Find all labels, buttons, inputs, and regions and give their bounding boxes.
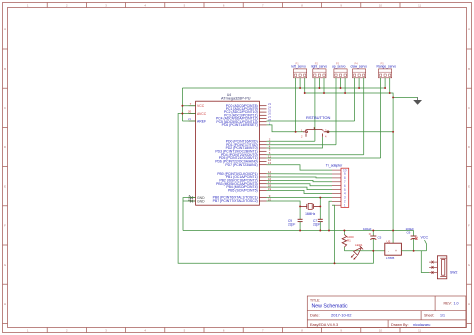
svg-text:20: 20 — [188, 110, 192, 114]
wire PB1 to Tr pin8 — [267, 176, 333, 179]
wire P3 signal pin — [335, 78, 337, 145]
wire to switch SW2 — [421, 251, 429, 273]
wire PC6 RESET to button — [267, 125, 304, 132]
svg-text:5: 5 — [184, 329, 186, 333]
svg-text:-: - — [388, 249, 389, 253]
connector P2 right_servo — [311, 61, 327, 77]
svg-text:2: 2 — [66, 3, 68, 7]
svg-text:C5: C5 — [378, 235, 382, 239]
svg-text:nicolazaru: nicolazaru — [413, 323, 430, 327]
title block — [307, 296, 466, 328]
svg-text:ATmega328P-PU: ATmega328P-PU — [221, 97, 251, 101]
capacitor C9 — [288, 206, 303, 230]
svg-text:L7805: L7805 — [386, 256, 395, 260]
wire PD1 to connector P3 — [267, 144, 337, 146]
svg-text:VCC: VCC — [197, 104, 205, 108]
wire PB4 to Tr pin5 — [267, 187, 333, 190]
svg-text:Sheet:: Sheet: — [424, 314, 434, 318]
ground symbol — [414, 97, 421, 104]
svg-text:9: 9 — [340, 329, 342, 333]
svg-text:A: A — [468, 27, 470, 31]
pushbutton RSTBUTTON — [301, 115, 330, 139]
wire rail A (VCC) — [182, 87, 385, 89]
op IC U4 ATmega328P-PU — [196, 93, 260, 205]
svg-text:B: B — [468, 67, 470, 71]
svg-text:RSTBUTTON: RSTBUTTON — [306, 115, 330, 120]
wire PB7 XTAL2 to crystal — [267, 201, 301, 206]
svg-text:PB7 (PCINT7/XTAL2/TOSC2): PB7 (PCINT7/XTAL2/TOSC2) — [213, 199, 258, 203]
connector P1 left_servo — [292, 61, 307, 77]
connector Tr_adapter — [326, 163, 349, 207]
wire P5 signal pin — [380, 78, 382, 158]
svg-text:4: 4 — [144, 3, 146, 7]
wire Tr pin2 to inner rail — [329, 201, 332, 230]
wire GND pins to inner rail — [183, 198, 196, 231]
wire AVCC branch to outer rail — [178, 114, 373, 264]
svg-text:3: 3 — [105, 3, 107, 7]
wire VCC rail A left vertical — [182, 88, 195, 121]
svg-text:PB5 (SCK/PCINT5): PB5 (SCK/PCINT5) — [228, 189, 258, 193]
wire PB6 XTAL1 to Tr pin3 — [267, 196, 333, 198]
wire Tr pin1 to outer rail — [332, 205, 335, 263]
U4 right pin names — [213, 104, 258, 203]
wire regulator output — [401, 250, 426, 252]
wire PD2 to button lower pin — [267, 137, 323, 148]
wire rail B (GND top) — [305, 93, 393, 97]
svg-text:New Schematic: New Schematic — [312, 303, 348, 309]
wire P1 gnd pin — [304, 78, 306, 93]
svg-text:7: 7 — [262, 3, 264, 7]
svg-text:EasyEDA V4.9.3: EasyEDA V4.9.3 — [310, 323, 338, 327]
wire P2 gnd pin — [323, 78, 325, 93]
net flag VCC — [421, 235, 429, 250]
GND pin cross marks — [190, 196, 193, 202]
svg-text:right_servo: right_servo — [311, 64, 327, 68]
svg-text:D: D — [4, 145, 6, 149]
svg-text:16MHz: 16MHz — [305, 212, 316, 216]
U4 right pin stubs — [259, 106, 266, 201]
svg-text:3: 3 — [105, 329, 107, 333]
svg-text:2: 2 — [66, 329, 68, 333]
svg-text:D: D — [468, 145, 470, 149]
svg-text:E: E — [468, 184, 470, 188]
connector P3 up_servo — [332, 61, 347, 77]
wire P5 power pin — [384, 78, 386, 88]
svg-text:E: E — [4, 184, 6, 188]
svg-text:H: H — [4, 302, 6, 306]
svg-text:claw_servo: claw_servo — [351, 64, 368, 68]
svg-text:1: 1 — [344, 203, 346, 207]
svg-text:11: 11 — [418, 329, 421, 333]
svg-text:7: 7 — [262, 329, 264, 333]
svg-text:PD7 (PCINT23/AIN1): PD7 (PCINT23/AIN1) — [225, 163, 257, 167]
svg-text:REV:: REV: — [444, 301, 452, 305]
wire P5 gnd pin — [389, 78, 391, 93]
svg-text:SW2: SW2 — [450, 270, 457, 274]
wire button to GND vertical — [327, 131, 393, 133]
svg-text:C: C — [468, 106, 470, 110]
svg-text:4: 4 — [325, 135, 327, 139]
regulator U5 L7805 — [385, 239, 402, 260]
switch SW2 — [429, 256, 457, 279]
wire P4 signal pin — [354, 78, 356, 121]
capacitor C7 — [313, 206, 323, 230]
crystal Y1 16MHz — [300, 203, 320, 215]
svg-text:H: H — [468, 302, 470, 306]
svg-text:TITLE:: TITLE: — [310, 299, 320, 303]
svg-text:left_servo: left_servo — [292, 64, 306, 68]
wire P2 power pin — [318, 78, 320, 88]
svg-text:9: 9 — [340, 3, 342, 7]
connector P5 Range_servo — [377, 61, 397, 77]
svg-text:Range_servo: Range_servo — [377, 64, 397, 68]
LED LED1 — [344, 243, 384, 259]
wire P4 power pin — [358, 78, 360, 88]
svg-text:22pF: 22pF — [288, 223, 295, 227]
wire PD5 to connector P5 — [267, 157, 381, 159]
wire PB0 to Tr pin9 — [267, 173, 333, 175]
svg-text:1.0: 1.0 — [454, 301, 459, 305]
svg-text:8: 8 — [301, 3, 303, 7]
svg-text:GND: GND — [197, 199, 205, 203]
wire PC4 to connector P4 — [267, 120, 355, 122]
wire PD4 to connector P4 pin3 — [267, 154, 364, 156]
wire P4 third pin to PD4 — [363, 78, 365, 155]
svg-text:AREF: AREF — [197, 119, 206, 123]
wire P1 power pin — [299, 78, 301, 88]
wire XTAL1 branch to crystal — [319, 198, 321, 207]
wire PB3 to Tr pin6 — [267, 184, 333, 186]
svg-text:LED1: LED1 — [355, 243, 363, 247]
svg-text:R1: R1 — [347, 239, 351, 243]
svg-text:100uF: 100uF — [363, 227, 372, 231]
svg-text:PC6 (PCINT14/RESET): PC6 (PCINT14/RESET) — [222, 123, 258, 127]
wire P3 gnd pin — [344, 78, 346, 93]
svg-text:7: 7 — [190, 102, 192, 106]
svg-text:Date:: Date: — [310, 313, 320, 318]
resistor R1 1000 — [342, 231, 354, 251]
svg-text:5: 5 — [184, 3, 186, 7]
capacitor C6 100uF — [406, 227, 418, 251]
wire GND vertical to regulator — [392, 97, 394, 243]
svg-text:up_servo: up_servo — [332, 64, 346, 68]
wire P1 signal pin — [295, 78, 297, 132]
svg-text:U5: U5 — [387, 239, 391, 243]
U4 left pins VCC AVCC AREF GND — [189, 106, 196, 201]
capacitor C5 100uF — [363, 227, 382, 251]
svg-text:6: 6 — [223, 3, 225, 7]
svg-text:1/1: 1/1 — [440, 314, 445, 318]
svg-text:2017-10-02: 2017-10-02 — [331, 313, 352, 318]
svg-text:10: 10 — [379, 329, 383, 333]
svg-text:A: A — [4, 27, 6, 31]
svg-text:22pF: 22pF — [313, 223, 320, 227]
svg-text:Drawn By:: Drawn By: — [391, 323, 409, 327]
svg-text:10: 10 — [379, 3, 383, 7]
svg-text:4: 4 — [144, 329, 146, 333]
svg-text:21: 21 — [188, 117, 192, 121]
svg-text:C: C — [4, 106, 6, 110]
wire PB5 to Tr pin4 — [267, 190, 333, 193]
wire rail C to ground — [393, 96, 418, 98]
svg-text:Tr_adapter: Tr_adapter — [326, 163, 343, 167]
wire PD0 to connector P2 — [267, 140, 315, 142]
wire P3 power pin — [340, 78, 342, 88]
svg-text:+: + — [395, 249, 397, 253]
svg-text:B: B — [4, 67, 6, 71]
svg-text:1: 1 — [27, 3, 29, 7]
svg-text:6: 6 — [223, 329, 225, 333]
svg-text:C6: C6 — [407, 230, 411, 234]
svg-text:F: F — [4, 224, 6, 228]
wire P2 signal pin — [314, 78, 316, 142]
wire PD7 to Tr pin10 — [267, 165, 333, 170]
svg-text:1: 1 — [27, 329, 29, 333]
U4 right pin numbers — [268, 102, 272, 201]
svg-text:11: 11 — [418, 3, 421, 7]
svg-text:8: 8 — [301, 329, 303, 333]
svg-text:F: F — [468, 224, 470, 228]
connector P4 claw_servo — [351, 61, 368, 77]
svg-text:G: G — [4, 263, 6, 267]
svg-text:VCC: VCC — [421, 235, 429, 239]
svg-text:AVCC: AVCC — [197, 112, 207, 116]
svg-text:G: G — [468, 263, 470, 267]
wire PB2 to Tr pin7 — [267, 180, 333, 181]
svg-text:2: 2 — [301, 135, 303, 139]
wire inner GND rail — [183, 230, 414, 232]
